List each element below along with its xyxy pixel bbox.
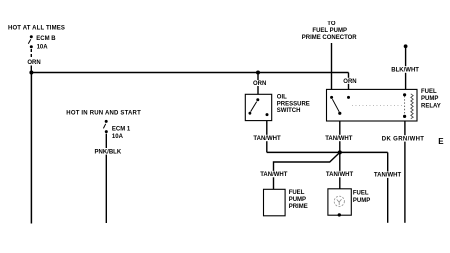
fuse ECM B 10A <box>28 35 33 48</box>
svg-text:TO: TO <box>327 21 336 27</box>
svg-text:HOT AT ALL TIMES: HOT AT ALL TIMES <box>8 25 65 31</box>
wire ORN corner into relay <box>348 73 350 90</box>
BLK/WHT terminal dot <box>404 44 408 48</box>
svg-text:HOT IN RUN AND START: HOT IN RUN AND START <box>66 111 141 117</box>
label TAN/WHT 5 <box>373 172 401 179</box>
svg-text:FUEL: FUEL <box>353 191 369 197</box>
junction dot A <box>29 71 33 75</box>
svg-text:TAN/WHT: TAN/WHT <box>260 172 288 178</box>
main horizontal ORN wire <box>31 72 348 74</box>
svg-text:FUEL PUMP: FUEL PUMP <box>312 28 347 34</box>
svg-text:PRIME: PRIME <box>289 204 308 210</box>
svg-text:PNK/BLK: PNK/BLK <box>95 150 122 156</box>
oil pressure switch box <box>245 94 271 120</box>
svg-text:PUMP: PUMP <box>289 197 306 203</box>
relay coil axis (dotted) <box>404 96 406 115</box>
junction dot C <box>338 150 342 154</box>
wire BLK/WHT <box>405 46 407 89</box>
label PNK/BLK <box>94 148 122 156</box>
svg-text:ECM B: ECM B <box>36 36 56 42</box>
svg-text:PRIME CONECTOR: PRIME CONECTOR <box>302 35 358 41</box>
svg-text:PUMP: PUMP <box>421 96 438 102</box>
oil pressure switch pin right <box>266 113 269 116</box>
label FUEL PUMP PRIME <box>289 190 308 210</box>
label DK GRN/WHT <box>381 135 425 142</box>
label TAN/WHT 4 <box>325 171 353 178</box>
wire relay coil output DK GRN/WHT <box>404 121 406 223</box>
wire relay switch output <box>339 121 341 189</box>
svg-text:10A: 10A <box>112 134 124 140</box>
oil pressure switch pin top <box>256 98 259 101</box>
label OIL PRESSURE SWITCH <box>277 95 310 115</box>
wire oil pressure switch output <box>266 121 268 153</box>
fuel pump box <box>328 189 351 215</box>
oil pressure switch arm dot <box>249 112 252 115</box>
relay switch arm <box>332 99 339 112</box>
svg-text:ECM 1: ECM 1 <box>112 127 131 133</box>
relay pin 2 (ORN) <box>347 96 350 99</box>
svg-text:E: E <box>438 137 444 146</box>
wire fuel pump prime connector <box>331 43 333 89</box>
fuel pump relay box <box>327 89 418 121</box>
svg-text:PUMP: PUMP <box>353 198 370 204</box>
svg-text:BLK/WHT: BLK/WHT <box>391 68 419 74</box>
relay coil pin top <box>403 93 406 96</box>
svg-text:PRESSURE: PRESSURE <box>277 102 310 108</box>
wire PNK/BLK <box>105 134 107 223</box>
wire junction to oil pressure switch <box>257 73 259 95</box>
svg-text:ORN: ORN <box>253 81 266 87</box>
svg-text:10A: 10A <box>37 45 49 51</box>
wire third TAN/WHT branch <box>387 152 389 222</box>
relay pin 1 (prime connector) <box>330 96 333 99</box>
wire diagonal to fuel pump prime branch <box>274 152 340 189</box>
label TAN/WHT 2 <box>324 135 352 142</box>
wire ORN label to junction <box>30 66 32 73</box>
svg-text:SWITCH: SWITCH <box>277 108 301 114</box>
svg-text:FUEL: FUEL <box>289 190 305 196</box>
relay coil pin bottom <box>403 115 406 118</box>
svg-text:RELAY: RELAY <box>421 103 441 109</box>
label FUEL PUMP <box>353 191 370 204</box>
svg-text:TAN/WHT: TAN/WHT <box>326 172 354 178</box>
svg-text:TAN/WHT: TAN/WHT <box>253 136 281 142</box>
svg-text:FUEL: FUEL <box>421 89 437 95</box>
label FUEL PUMP RELAY <box>421 89 441 109</box>
relay coil zigzag <box>411 94 413 119</box>
fuse ECM 1 10A <box>103 120 107 133</box>
label ORN (oil pressure switch wire) <box>253 80 267 87</box>
TAN/WHT horizontal bus wire <box>267 151 388 153</box>
left ORN vertical wire <box>30 73 32 224</box>
label TAN/WHT 3 <box>259 171 287 178</box>
fuel pump prime box <box>264 189 286 216</box>
label ORN (relay wire) <box>343 78 357 85</box>
wire dashed fuse to ORN <box>30 49 32 58</box>
label TAN/WHT 1 <box>253 135 281 142</box>
label BLK/WHT <box>391 66 420 74</box>
oil pressure switch arm <box>251 102 257 112</box>
label TO FUEL PUMP PRIME CONECTOR <box>302 21 358 41</box>
svg-text:ORN: ORN <box>27 60 40 66</box>
relay switch arm dot <box>338 112 341 115</box>
fuel pump ground dot <box>338 213 341 216</box>
svg-text:TAN/WHT: TAN/WHT <box>374 173 402 179</box>
svg-text:ORN: ORN <box>343 79 356 85</box>
junction dot B (oil pressure switch branch) <box>256 71 260 75</box>
fuel pump motor circle <box>334 196 344 206</box>
svg-text:DK GRN/WHT: DK GRN/WHT <box>382 136 425 142</box>
svg-text:OIL: OIL <box>277 95 287 101</box>
relay mechanical link (dashed) <box>352 105 402 107</box>
svg-text:TAN/WHT: TAN/WHT <box>325 136 353 142</box>
